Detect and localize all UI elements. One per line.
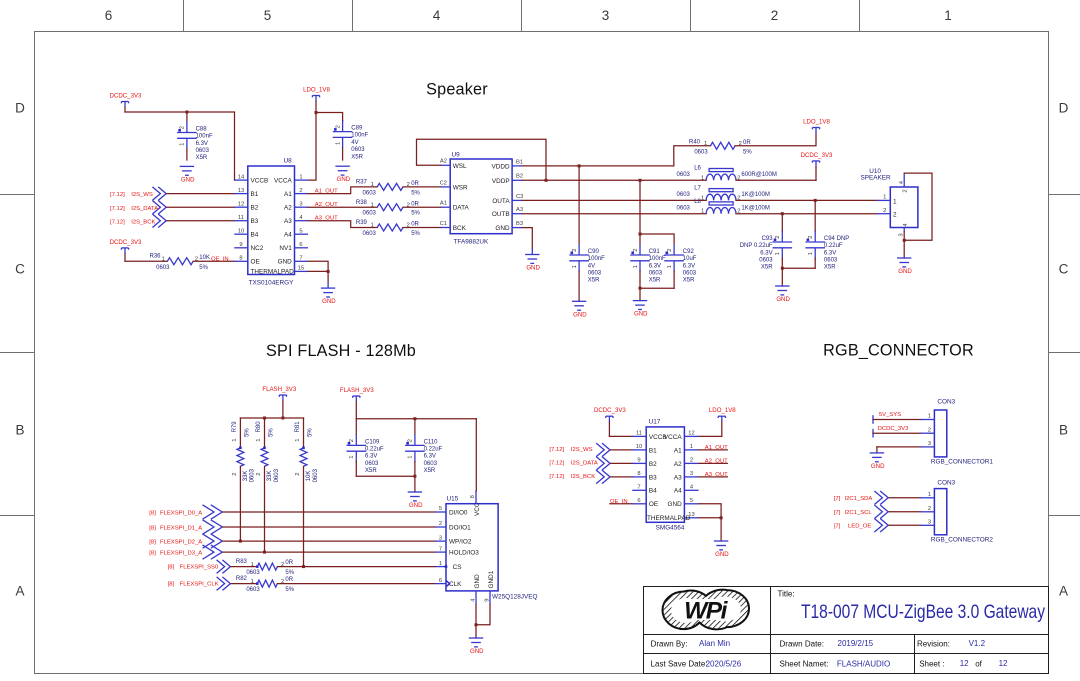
wire DCDC_3V3 to R36 pin1 bbox=[125, 254, 167, 261]
svg-text:C1: C1 bbox=[440, 221, 447, 227]
svg-text:0603: 0603 bbox=[196, 148, 210, 154]
resistor R80 bbox=[256, 421, 280, 483]
svg-text:0603: 0603 bbox=[313, 468, 319, 482]
svg-text:6.3V: 6.3V bbox=[424, 454, 436, 460]
svg-text:B2: B2 bbox=[649, 461, 657, 468]
svg-text:7: 7 bbox=[439, 546, 442, 552]
power DCDC_3V3 (R36) bbox=[110, 239, 142, 254]
svg-text:1: 1 bbox=[162, 257, 165, 263]
IC U9 TFA9882UK body bbox=[440, 152, 524, 246]
svg-text:4: 4 bbox=[690, 485, 694, 491]
svg-text:1: 1 bbox=[180, 143, 186, 146]
svg-text:GND: GND bbox=[470, 648, 484, 655]
wire I2S_BCK to U8 B3 bbox=[167, 220, 235, 222]
svg-text:R37: R37 bbox=[356, 180, 368, 186]
svg-text:0603: 0603 bbox=[424, 461, 438, 467]
sheet entry I2S_WS bbox=[110, 187, 166, 201]
section heading RGB_CONNECTOR bbox=[823, 342, 974, 360]
capacitor C88 bbox=[177, 112, 213, 161]
wire net VDDD (U9 B1 to R40) bbox=[522, 165, 674, 167]
svg-text:5%: 5% bbox=[411, 211, 420, 217]
svg-text:11: 11 bbox=[238, 215, 244, 221]
svg-text:GND: GND bbox=[715, 551, 729, 558]
svg-text:2019/2/15: 2019/2/15 bbox=[838, 639, 874, 648]
svg-text:2: 2 bbox=[690, 458, 693, 464]
svg-text:1: 1 bbox=[775, 252, 781, 255]
svg-text:I2C1_SDA: I2C1_SDA bbox=[845, 496, 873, 502]
ground (U8) bbox=[321, 282, 336, 305]
svg-text:14: 14 bbox=[238, 174, 245, 180]
svg-text:A3: A3 bbox=[516, 207, 523, 213]
svg-text:R79: R79 bbox=[232, 421, 238, 433]
zone row labels bbox=[15, 101, 1069, 599]
wire L6 to DCDC_3V3 bbox=[736, 179, 816, 181]
svg-text:1: 1 bbox=[928, 492, 931, 498]
svg-text:B1: B1 bbox=[649, 447, 657, 454]
svg-text:1: 1 bbox=[572, 265, 578, 268]
svg-text:1: 1 bbox=[928, 414, 931, 420]
wire R39 to U9 BCK bbox=[403, 227, 441, 229]
ground (C89) bbox=[335, 166, 350, 183]
wire VDDD riser to R40 bbox=[674, 146, 711, 166]
svg-text:100nF: 100nF bbox=[588, 256, 605, 262]
resistor R83 bbox=[236, 559, 295, 576]
svg-text:4: 4 bbox=[433, 8, 441, 23]
svg-text:C94 DNP: C94 DNP bbox=[824, 236, 849, 242]
svg-text:5%: 5% bbox=[411, 190, 420, 196]
svg-text:THERMALPAD: THERMALPAD bbox=[251, 269, 295, 276]
wire U15 grounds bbox=[476, 605, 490, 639]
svg-text:C3: C3 bbox=[516, 194, 523, 200]
power DCDC_3V3 (L6) bbox=[801, 152, 833, 180]
svg-text:A1_OUT: A1_OUT bbox=[705, 445, 728, 451]
svg-text:C: C bbox=[1059, 262, 1069, 277]
svg-text:I2S_BCK: I2S_BCK bbox=[571, 474, 595, 480]
svg-text:10: 10 bbox=[238, 228, 244, 234]
svg-text:A: A bbox=[1059, 584, 1068, 599]
wire I2S_BCK to U17 bbox=[611, 476, 633, 478]
svg-text:1: 1 bbox=[371, 202, 374, 208]
sheet entry FLEXSPI_D0_A bbox=[149, 505, 222, 519]
svg-text:0603: 0603 bbox=[250, 468, 256, 482]
svg-text:FLASH/AUDIO: FLASH/AUDIO bbox=[837, 659, 890, 668]
svg-text:0.22uF: 0.22uF bbox=[824, 243, 843, 249]
svg-text:HOLD/IO3: HOLD/IO3 bbox=[449, 550, 479, 557]
svg-text:C109: C109 bbox=[365, 439, 380, 445]
svg-text:1: 1 bbox=[232, 439, 238, 442]
svg-text:5%: 5% bbox=[307, 428, 313, 437]
svg-text:[7.12]: [7.12] bbox=[110, 192, 125, 198]
svg-text:[8]: [8] bbox=[149, 540, 156, 546]
section heading SPI FLASH - 128Mb bbox=[266, 342, 416, 360]
wire FLASH_3V3 to C109/C110 and U15 VCC bbox=[356, 402, 476, 491]
svg-text:[8]: [8] bbox=[168, 581, 175, 587]
svg-text:GND: GND bbox=[526, 265, 540, 272]
ground (C90) bbox=[572, 301, 587, 318]
svg-text:7: 7 bbox=[299, 256, 302, 262]
ground (U17) bbox=[714, 541, 729, 558]
svg-text:GND: GND bbox=[898, 268, 912, 275]
svg-text:2: 2 bbox=[903, 189, 909, 192]
wire I2S_WS to U8 B1 bbox=[167, 193, 235, 195]
ground (C91) bbox=[633, 301, 648, 318]
svg-text:6.3V: 6.3V bbox=[824, 250, 836, 256]
svg-text:2: 2 bbox=[771, 8, 779, 23]
svg-text:THERMALPAD: THERMALPAD bbox=[647, 515, 691, 522]
svg-text:FLEXSPI_SS0: FLEXSPI_SS0 bbox=[180, 564, 219, 570]
power LDO_1V8 (U17) bbox=[709, 407, 736, 422]
ground (C88) bbox=[180, 166, 195, 183]
svg-text:12: 12 bbox=[688, 431, 694, 437]
ground (C110) bbox=[408, 492, 423, 509]
svg-text:0603: 0603 bbox=[274, 468, 280, 482]
svg-text:2: 2 bbox=[808, 236, 814, 239]
svg-text:1: 1 bbox=[667, 265, 673, 268]
svg-text:R83: R83 bbox=[236, 559, 248, 565]
wire DCDC_3V3 to U17 VCCB bbox=[609, 422, 632, 436]
wire U8 A3 to R39 with net label A3_OUT bbox=[308, 216, 377, 228]
svg-text:2: 2 bbox=[928, 427, 931, 433]
svg-text:[7]: [7] bbox=[834, 510, 841, 516]
svg-text:D: D bbox=[1059, 101, 1069, 116]
ground (U15) bbox=[469, 638, 484, 655]
svg-text:1: 1 bbox=[256, 439, 262, 442]
svg-text:9: 9 bbox=[485, 599, 491, 602]
svg-text:C110: C110 bbox=[424, 439, 439, 445]
svg-text:0R: 0R bbox=[411, 181, 419, 187]
svg-text:OE_IN: OE_IN bbox=[211, 256, 229, 262]
svg-text:6.3V: 6.3V bbox=[365, 454, 377, 460]
wire U10 pin4 loop to pin3 bbox=[904, 173, 932, 240]
svg-text:X5R: X5R bbox=[196, 155, 208, 161]
svg-text:TFA9882UK: TFA9882UK bbox=[454, 238, 490, 245]
svg-text:DCDC_3V3: DCDC_3V3 bbox=[878, 426, 909, 432]
svg-text:L7: L7 bbox=[694, 186, 701, 192]
svg-text:FLEXSPI_CLK: FLEXSPI_CLK bbox=[180, 581, 219, 587]
svg-text:A2: A2 bbox=[284, 205, 292, 212]
section heading Speaker bbox=[426, 81, 488, 99]
svg-text:6: 6 bbox=[105, 8, 113, 23]
svg-text:1: 1 bbox=[701, 195, 704, 201]
junction C93/C94 bottom bbox=[781, 267, 784, 270]
svg-text:2: 2 bbox=[928, 506, 931, 512]
sheet entry I2S_DATA bbox=[110, 200, 166, 214]
wire R83 to U15 CS bbox=[277, 566, 435, 568]
svg-text:I2S_BCK: I2S_BCK bbox=[131, 219, 155, 225]
power LDO_1V8 (top) bbox=[303, 87, 330, 102]
svg-text:3: 3 bbox=[690, 471, 693, 477]
svg-text:Drawn By:: Drawn By: bbox=[651, 640, 688, 649]
svg-text:0603: 0603 bbox=[156, 265, 170, 271]
svg-text:RGB_CONNECTOR1: RGB_CONNECTOR1 bbox=[931, 458, 993, 465]
svg-text:GND: GND bbox=[776, 296, 790, 303]
wire CON3-1 pin3 to ground bbox=[877, 447, 921, 453]
sheet entry FLEXSPI_D2_A bbox=[149, 534, 222, 548]
svg-text:VCCA: VCCA bbox=[664, 434, 682, 441]
svg-text:33K: 33K bbox=[267, 471, 273, 482]
svg-text:6.3V: 6.3V bbox=[196, 141, 208, 147]
wire LED_OE to CON3-2 bbox=[889, 524, 921, 526]
title block texts bbox=[651, 590, 1046, 669]
svg-text:0603: 0603 bbox=[683, 271, 697, 277]
wire C93 riser bbox=[781, 214, 783, 231]
svg-text:8: 8 bbox=[239, 256, 242, 262]
svg-text:1: 1 bbox=[944, 8, 952, 23]
svg-text:U8: U8 bbox=[284, 157, 293, 164]
ground (U10) bbox=[897, 258, 912, 275]
svg-text:2: 2 bbox=[299, 188, 302, 194]
svg-text:0R: 0R bbox=[285, 560, 293, 566]
svg-text:0603: 0603 bbox=[246, 587, 260, 593]
junction at C89 tap bbox=[315, 111, 318, 114]
svg-text:0603: 0603 bbox=[677, 192, 691, 198]
junction U15 gnd bbox=[475, 623, 478, 626]
junction U10 loop bbox=[903, 239, 906, 242]
svg-text:DCDC_3V3: DCDC_3V3 bbox=[801, 152, 833, 159]
svg-text:0603: 0603 bbox=[649, 271, 663, 277]
svg-text:CON3: CON3 bbox=[937, 399, 955, 406]
sheet entry LED_OE bbox=[834, 519, 889, 533]
ground (U9) bbox=[525, 248, 540, 271]
svg-text:6: 6 bbox=[637, 498, 640, 504]
svg-text:[7.12]: [7.12] bbox=[549, 474, 564, 480]
svg-text:1: 1 bbox=[690, 444, 693, 450]
svg-text:100nF: 100nF bbox=[351, 133, 368, 139]
svg-text:R38: R38 bbox=[356, 200, 368, 206]
zone column labels bbox=[105, 8, 952, 23]
svg-text:[7.12]: [7.12] bbox=[549, 461, 564, 467]
svg-text:B3: B3 bbox=[649, 474, 657, 481]
svg-text:1: 1 bbox=[349, 456, 355, 459]
svg-text:[8]: [8] bbox=[149, 511, 156, 517]
wire FLASH_3V3 pullup bus bbox=[240, 401, 303, 448]
svg-text:1: 1 bbox=[893, 198, 897, 205]
svg-text:Drawn Date:: Drawn Date: bbox=[780, 640, 824, 649]
svg-text:DATA: DATA bbox=[453, 205, 470, 212]
svg-text:0603: 0603 bbox=[677, 206, 691, 212]
svg-text:15: 15 bbox=[298, 266, 304, 272]
svg-text:NC2: NC2 bbox=[251, 245, 264, 252]
capacitor C91 bbox=[630, 244, 666, 284]
wire net OUTB (U9 A3 to L8) bbox=[522, 213, 706, 215]
sheet entry I2S_BCK (U17) bbox=[549, 470, 610, 484]
svg-text:C89: C89 bbox=[351, 126, 363, 132]
svg-text:2: 2 bbox=[180, 126, 186, 129]
junction C91/C92 top bbox=[639, 233, 642, 236]
junction WSL loop tap bbox=[545, 179, 548, 182]
svg-text:5V_SYS: 5V_SYS bbox=[879, 412, 901, 418]
ground (C93) bbox=[775, 286, 790, 303]
wire net VCCA (LDO_1V8 to U8 pin1 and C89) bbox=[308, 102, 343, 181]
svg-text:I2S_DATA: I2S_DATA bbox=[571, 461, 598, 467]
svg-text:5: 5 bbox=[690, 498, 693, 504]
svg-text:C93: C93 bbox=[762, 236, 774, 242]
svg-text:SPEAKER: SPEAKER bbox=[860, 175, 891, 182]
svg-text:5%: 5% bbox=[411, 231, 420, 237]
resistor R38 bbox=[356, 200, 421, 217]
wire FLEXSPI_CLK to R82 bbox=[231, 583, 257, 585]
svg-text:X5R: X5R bbox=[588, 278, 600, 284]
ferrite bead L7 bbox=[677, 186, 770, 202]
net label A1_OUT (U17) bbox=[699, 445, 729, 451]
junction C90 tap bbox=[578, 164, 581, 167]
svg-text:2: 2 bbox=[232, 473, 238, 476]
svg-text:B: B bbox=[15, 423, 24, 438]
svg-text:0603: 0603 bbox=[365, 461, 379, 467]
svg-text:OUTB: OUTB bbox=[492, 211, 510, 218]
svg-text:6: 6 bbox=[299, 242, 302, 248]
resistor R37 bbox=[356, 180, 421, 197]
svg-text:6.3V: 6.3V bbox=[649, 263, 661, 269]
svg-text:1K@100M: 1K@100M bbox=[741, 205, 769, 211]
svg-text:GND: GND bbox=[573, 311, 587, 318]
svg-text:U17: U17 bbox=[649, 419, 661, 426]
svg-text:[7.12]: [7.12] bbox=[549, 447, 564, 453]
wire FLEXSPI_D3_A to U15 bbox=[223, 551, 435, 553]
svg-text:A3_OUT: A3_OUT bbox=[705, 472, 728, 478]
power FLASH_3V3 (pullups) bbox=[262, 386, 296, 401]
junction C91/C92 bottom bbox=[639, 287, 642, 290]
svg-text:1: 1 bbox=[251, 562, 254, 568]
ferrite bead L6 bbox=[677, 166, 777, 182]
svg-text:C90: C90 bbox=[588, 249, 600, 255]
connector CON3 RGB_CONNECTOR2 body bbox=[921, 480, 994, 544]
wire R36 to U8 OE with net label OE_IN bbox=[193, 256, 234, 262]
svg-text:0R: 0R bbox=[411, 222, 419, 228]
junction C91 tap bbox=[639, 179, 642, 182]
sheet entry FLEXSPI_SS0 bbox=[168, 560, 231, 574]
svg-text:I2S_DATA: I2S_DATA bbox=[131, 206, 158, 212]
wire I2S_DATA to U17 bbox=[611, 462, 633, 464]
svg-text:[7.12]: [7.12] bbox=[110, 219, 125, 225]
svg-text:R80: R80 bbox=[256, 421, 262, 433]
svg-text:1: 1 bbox=[701, 175, 704, 181]
svg-text:0603: 0603 bbox=[677, 172, 691, 178]
wire U17 GND and THERMALPAD to ground bbox=[699, 504, 722, 541]
svg-text:R81: R81 bbox=[295, 421, 301, 433]
svg-text:A4: A4 bbox=[284, 232, 292, 239]
wire FLEXSPI_D0_A to U15 bbox=[223, 511, 435, 513]
svg-text:GND: GND bbox=[871, 463, 885, 470]
junction C93 tap bbox=[781, 212, 784, 215]
junction C94 tap bbox=[814, 199, 817, 202]
power DCDC_3V3 (U17) bbox=[594, 407, 626, 422]
junction pullup bus stem bbox=[281, 417, 284, 420]
svg-text:B4: B4 bbox=[649, 488, 657, 495]
svg-text:C: C bbox=[15, 262, 25, 277]
svg-text:of: of bbox=[975, 659, 982, 668]
wire C91 riser and C92 bridge top bbox=[640, 180, 674, 244]
svg-text:0603: 0603 bbox=[363, 231, 377, 237]
svg-text:B4: B4 bbox=[251, 232, 259, 239]
svg-text:1: 1 bbox=[299, 174, 302, 180]
capacitor C90 bbox=[569, 244, 605, 284]
svg-text:5: 5 bbox=[264, 8, 272, 23]
svg-text:BCK: BCK bbox=[453, 225, 467, 232]
svg-text:GND: GND bbox=[634, 311, 648, 318]
svg-text:2: 2 bbox=[883, 208, 886, 214]
svg-text:10K: 10K bbox=[199, 255, 210, 261]
title block grid bbox=[644, 587, 1049, 674]
svg-text:GND: GND bbox=[474, 574, 481, 589]
svg-text:X5R: X5R bbox=[761, 265, 773, 271]
wire C91/C92 bottom bridge to ground bbox=[640, 272, 674, 301]
svg-text:2: 2 bbox=[335, 125, 341, 128]
svg-text:Sheet :: Sheet : bbox=[919, 659, 944, 668]
sheet entry I2C1_SCL bbox=[834, 505, 889, 519]
power FLASH_3V3 (decoupling) bbox=[340, 387, 374, 402]
svg-text:1: 1 bbox=[371, 223, 374, 229]
svg-text:5%: 5% bbox=[268, 428, 274, 437]
wire FLEXSPI_D2_A to U15 bbox=[223, 540, 435, 542]
svg-text:Last Save Date:: Last Save Date: bbox=[651, 659, 708, 668]
svg-text:A2: A2 bbox=[440, 159, 447, 165]
svg-text:1: 1 bbox=[704, 141, 707, 147]
svg-text:12: 12 bbox=[960, 659, 969, 668]
junction U17 gnd bbox=[720, 516, 723, 519]
sheet entry I2S_DATA (U17) bbox=[549, 457, 610, 471]
svg-text:5: 5 bbox=[299, 228, 302, 234]
sheet entry FLEXSPI_D1_A bbox=[149, 520, 222, 534]
svg-text:DCDC_3V3: DCDC_3V3 bbox=[110, 93, 142, 100]
svg-text:FLEXSPI_D3_A: FLEXSPI_D3_A bbox=[160, 551, 202, 557]
svg-text:X5R: X5R bbox=[824, 265, 836, 271]
svg-text:4: 4 bbox=[299, 215, 303, 221]
net stub DCDC_3V3 (CON3) bbox=[873, 426, 921, 438]
svg-text:1: 1 bbox=[371, 182, 374, 188]
wire OE_IN to U17 OE with net label bbox=[610, 499, 632, 505]
svg-text:L8: L8 bbox=[694, 199, 701, 205]
svg-text:B2: B2 bbox=[251, 205, 259, 212]
capacitor C89 bbox=[333, 121, 369, 161]
svg-text:2: 2 bbox=[408, 439, 414, 442]
svg-text:B: B bbox=[1059, 423, 1068, 438]
svg-text:A3: A3 bbox=[284, 218, 292, 225]
svg-text:X5R: X5R bbox=[351, 154, 363, 160]
svg-text:1: 1 bbox=[808, 252, 814, 255]
svg-text:A1: A1 bbox=[284, 191, 292, 198]
capacitor C110 bbox=[405, 434, 443, 474]
IC U15 W25Q128JVEQ body bbox=[435, 491, 537, 605]
svg-text:A1: A1 bbox=[440, 201, 447, 207]
svg-text:FLEXSPI_D1_A: FLEXSPI_D1_A bbox=[160, 526, 202, 532]
svg-text:X5R: X5R bbox=[683, 278, 695, 284]
sheet entry I2S_BCK bbox=[110, 214, 166, 228]
svg-text:DI/IO0: DI/IO0 bbox=[449, 510, 468, 517]
svg-text:0.22uF: 0.22uF bbox=[365, 447, 384, 453]
svg-text:[7]: [7] bbox=[834, 524, 841, 530]
svg-text:C91: C91 bbox=[649, 249, 661, 255]
svg-text:2: 2 bbox=[633, 249, 639, 252]
svg-text:5: 5 bbox=[439, 506, 442, 512]
svg-text:U9: U9 bbox=[452, 152, 461, 159]
svg-text:C88: C88 bbox=[196, 126, 208, 132]
svg-text:1: 1 bbox=[633, 265, 639, 268]
svg-text:0R: 0R bbox=[411, 201, 419, 207]
connector CON3 RGB_CONNECTOR1 body bbox=[921, 399, 994, 466]
svg-text:NV1: NV1 bbox=[279, 245, 292, 252]
junction R79/D2 bbox=[239, 540, 242, 543]
svg-text:SPI FLASH - 128Mb: SPI FLASH - 128Mb bbox=[266, 342, 416, 360]
svg-text:CS: CS bbox=[453, 564, 462, 571]
svg-text:R82: R82 bbox=[236, 576, 248, 582]
ferrite bead L8 bbox=[677, 199, 770, 215]
ground (CON3-1) bbox=[870, 453, 885, 470]
svg-text:L6: L6 bbox=[694, 166, 701, 172]
wire net OUTA (U9 C3 to L7) bbox=[522, 199, 706, 201]
wire R82 to U15 CLK bbox=[277, 583, 435, 585]
wire C90 to ground bbox=[578, 272, 580, 302]
